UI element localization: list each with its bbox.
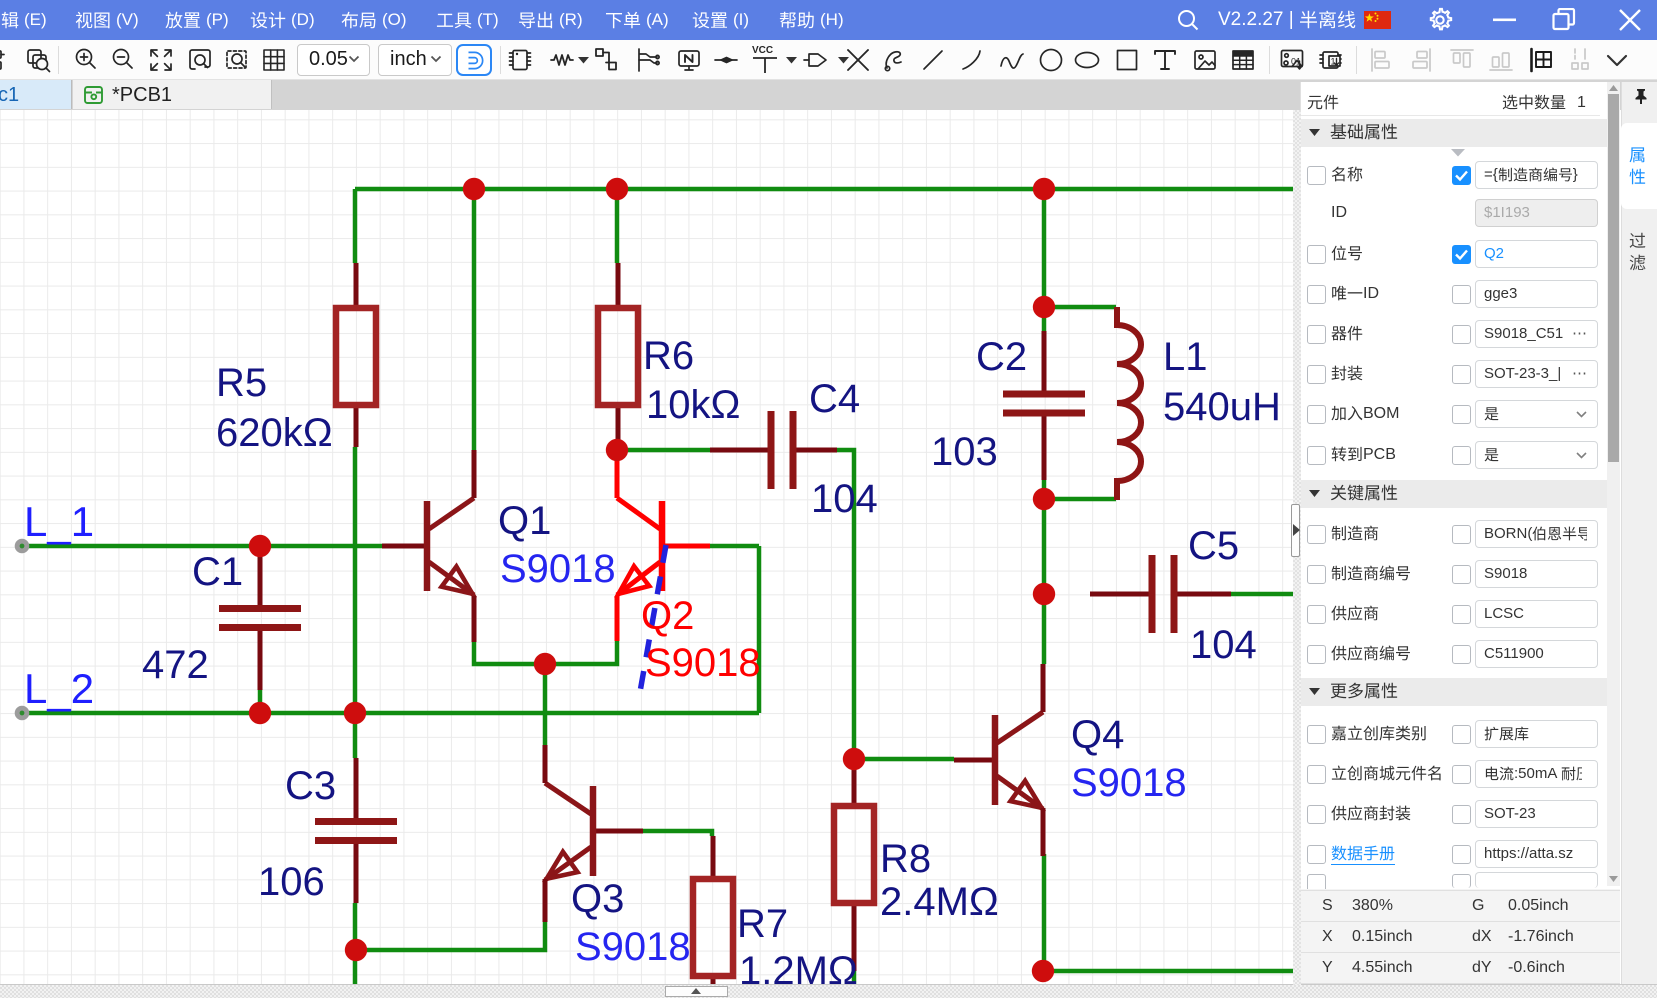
wire L1 top link [1044, 305, 1116, 310]
svg-text:S9018: S9018 [500, 547, 616, 591]
svg-text:Q1: Q1 [498, 499, 551, 543]
wire net L_2 [22, 711, 759, 716]
svg-text:10kΩ: 10kΩ [646, 383, 740, 427]
junction top-C2 [1033, 178, 1055, 200]
svg-text:R6: R6 [643, 334, 694, 378]
resistor R5 620k [336, 263, 376, 447]
wire R8 bottom stub [852, 971, 857, 985]
junction C2-L1 top [1033, 296, 1055, 318]
svg-text:R7: R7 [737, 902, 788, 946]
svg-text:L_1: L_1 [24, 498, 94, 545]
svg-text:106: 106 [258, 860, 325, 904]
wire R5 top [353, 189, 358, 263]
svg-text:L1: L1 [1163, 335, 1208, 379]
resistor R7 1.2M [693, 836, 733, 985]
q1 leads [472, 450, 477, 498]
svg-text:Q3: Q3 [571, 877, 624, 921]
svg-text:L_2: L_2 [24, 665, 94, 712]
junction Q4e-out [1032, 960, 1054, 982]
wire C1 top stub [258, 551, 263, 560]
svg-text:2.4MΩ: 2.4MΩ [880, 880, 999, 924]
svg-text:104: 104 [1190, 623, 1257, 667]
svg-text:104: 104 [811, 477, 878, 521]
junction top-Q1 [463, 178, 485, 200]
wire net L_1 [22, 544, 382, 549]
svg-text:Q4: Q4 [1071, 713, 1124, 757]
svg-text:C4: C4 [809, 377, 860, 421]
svg-text:620kΩ: 620kΩ [216, 411, 333, 455]
capacitor C4 104 [710, 411, 837, 489]
junction C3-Q3e [345, 939, 367, 961]
svg-text:R8: R8 [880, 837, 931, 881]
wire C4 left [628, 448, 710, 453]
wire C2 bottom to C5 [1042, 413, 1047, 594]
svg-text:R5: R5 [216, 361, 267, 405]
wire Q3 emitter wire [356, 920, 545, 950]
wire C2 top column [1042, 189, 1047, 331]
wire R5 bottom to C3 [353, 447, 358, 758]
q3 leads [543, 745, 548, 783]
wire C3 bottom column [353, 903, 358, 985]
junction L1-C1 [249, 535, 271, 557]
wire R6 top [615, 189, 620, 263]
junction C4-R8-Q4 [843, 748, 865, 770]
wire Q3 base wire [643, 831, 712, 836]
svg-text:540uH: 540uH [1163, 385, 1281, 429]
junction top-R6 [606, 178, 628, 200]
svg-text:C1: C1 [192, 550, 243, 594]
wire bottom out wire [1043, 969, 1294, 974]
svg-text:1: 1 [1331, 57, 1336, 67]
svg-text:S9018: S9018 [645, 641, 761, 685]
junction emitter-Q3 [534, 653, 556, 675]
port L_2 [15, 706, 30, 721]
junction C5 tap [1033, 583, 1055, 605]
transistor Q3 [596, 829, 643, 834]
junction L2-C1 [249, 702, 271, 724]
wire C4 right riser [793, 450, 854, 759]
capacitor C2 103 [1003, 331, 1085, 480]
wire emitter bus Q1-Q2 [474, 639, 617, 664]
wire Q4 collector column [1042, 594, 1047, 664]
svg-text:C5: C5 [1188, 524, 1239, 568]
svg-text:S9018: S9018 [575, 925, 691, 969]
svg-text:1.2MΩ: 1.2MΩ [739, 949, 858, 985]
capacitor C5 104 [1090, 555, 1231, 633]
wire Q1 collector column [472, 189, 477, 450]
transistor Q1 [382, 544, 424, 549]
selection drag dashed line on Q2 [640, 545, 666, 692]
junction C2-L1 bot [1033, 488, 1055, 510]
inductor L1 540uH [1117, 307, 1141, 500]
svg-text:103: 103 [931, 430, 998, 474]
resistor R6 10k [598, 263, 638, 450]
transistor Q2 selected [665, 544, 710, 549]
capacitor C1 472 [219, 546, 301, 690]
wire L1 bottom link [1044, 497, 1116, 502]
wire C1 bottom stub [258, 690, 263, 713]
wire top rail VCC [355, 187, 1294, 192]
svg-text:Q2: Q2 [641, 594, 694, 638]
q2 leads [615, 452, 620, 498]
junction R6-C4 [606, 439, 628, 461]
transistor Q4 [954, 758, 992, 763]
svg-text:C2: C2 [976, 335, 1027, 379]
wire Q2 base stub [710, 544, 759, 549]
wire Q2 base riser [757, 546, 762, 713]
wire Q4 emitter column [1042, 854, 1047, 971]
svg-text:S9018: S9018 [1071, 761, 1187, 805]
svg-text:C3: C3 [285, 764, 336, 808]
capacitor C3 106 [315, 758, 397, 903]
junction L2-C3 [344, 702, 366, 724]
q4 leads [1041, 664, 1046, 712]
wire Q3 collector riser [543, 664, 548, 745]
wire Q4 base wire [854, 757, 954, 762]
resistor R8 2.4M [834, 759, 874, 971]
wire C5 out wire [1231, 592, 1294, 597]
svg-text:472: 472 [142, 643, 209, 687]
port L_1 [15, 539, 30, 554]
